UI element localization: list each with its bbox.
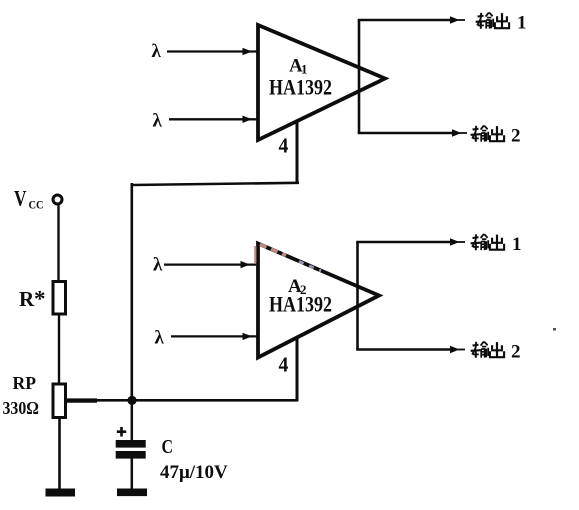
svg-text:4: 4	[279, 134, 289, 158]
svg-text:λ: λ	[155, 328, 165, 349]
svg-text:2: 2	[511, 342, 521, 363]
wire A1 output 1	[358, 19, 452, 21]
pin 4 of A1	[296, 121, 299, 184]
potentiometer RP body	[53, 384, 66, 418]
op-amp U2 A2 triangle	[258, 244, 379, 358]
wire RP to ground	[58, 418, 61, 490]
ground (RP)	[46, 489, 76, 497]
wire input A1 in1	[167, 50, 257, 52]
wire A1 output 2	[358, 132, 454, 134]
svg-text:R: R	[19, 287, 35, 311]
svg-text:HA1392: HA1392	[269, 292, 332, 317]
wire A1 output rail	[358, 20, 361, 133]
svg-text:V: V	[14, 186, 27, 211]
svg-text:47μ/10V: 47μ/10V	[160, 462, 228, 483]
wire capacitor to ground	[131, 459, 134, 490]
svg-text:λ: λ	[152, 41, 162, 62]
wire A2 output 2	[356, 348, 452, 350]
capacitor C plate bottom	[116, 451, 146, 459]
svg-text:2: 2	[511, 126, 521, 147]
pin 4 of A2	[296, 337, 299, 401]
wire jog to triangle corner	[254, 246, 256, 263]
svg-text:RP: RP	[13, 373, 37, 393]
wire A2 output rail	[356, 242, 359, 350]
svg-text:λ: λ	[153, 111, 163, 132]
label + of capacitor	[117, 427, 126, 437]
svg-text:1: 1	[512, 234, 522, 255]
wire left vertical to junction	[131, 183, 134, 401]
wire input A2 in1	[164, 263, 256, 265]
label output1 (A1) 输出 1	[476, 12, 527, 33]
ground (C)	[117, 489, 147, 497]
resistor R*	[53, 282, 66, 315]
wire Vcc to R*	[57, 205, 59, 282]
svg-text:CC: CC	[29, 198, 44, 212]
capacitor C plate top	[116, 440, 146, 448]
wire wiper to A2 pin4	[95, 399, 298, 402]
node junction dot	[127, 396, 136, 405]
svg-text:C: C	[162, 436, 174, 458]
svg-text:4: 4	[279, 353, 289, 377]
svg-text:HA1392: HA1392	[269, 75, 332, 100]
svg-text:330Ω: 330Ω	[3, 398, 40, 418]
svg-text:1: 1	[517, 13, 527, 34]
scan speck	[553, 328, 556, 331]
wire A1 pin4 horizontal	[132, 183, 299, 185]
svg-text:*: *	[34, 287, 46, 312]
label output1 (A2) 输出 1	[471, 234, 522, 255]
op-amp U1 A1 triangle	[258, 25, 385, 140]
wire R* to RP	[58, 314, 60, 384]
wire A2 output 1	[356, 241, 452, 243]
label output2 (A1) 输出 2	[471, 125, 521, 146]
wire junction to capacitor	[131, 400, 134, 441]
label output2 (A2) 输出 2	[471, 341, 521, 362]
wiper arrow of RP	[66, 398, 98, 402]
wire input A1 in2	[169, 118, 257, 120]
terminal Vcc	[53, 195, 62, 204]
svg-text:λ: λ	[153, 255, 163, 276]
wire input A2 in2	[171, 335, 257, 337]
